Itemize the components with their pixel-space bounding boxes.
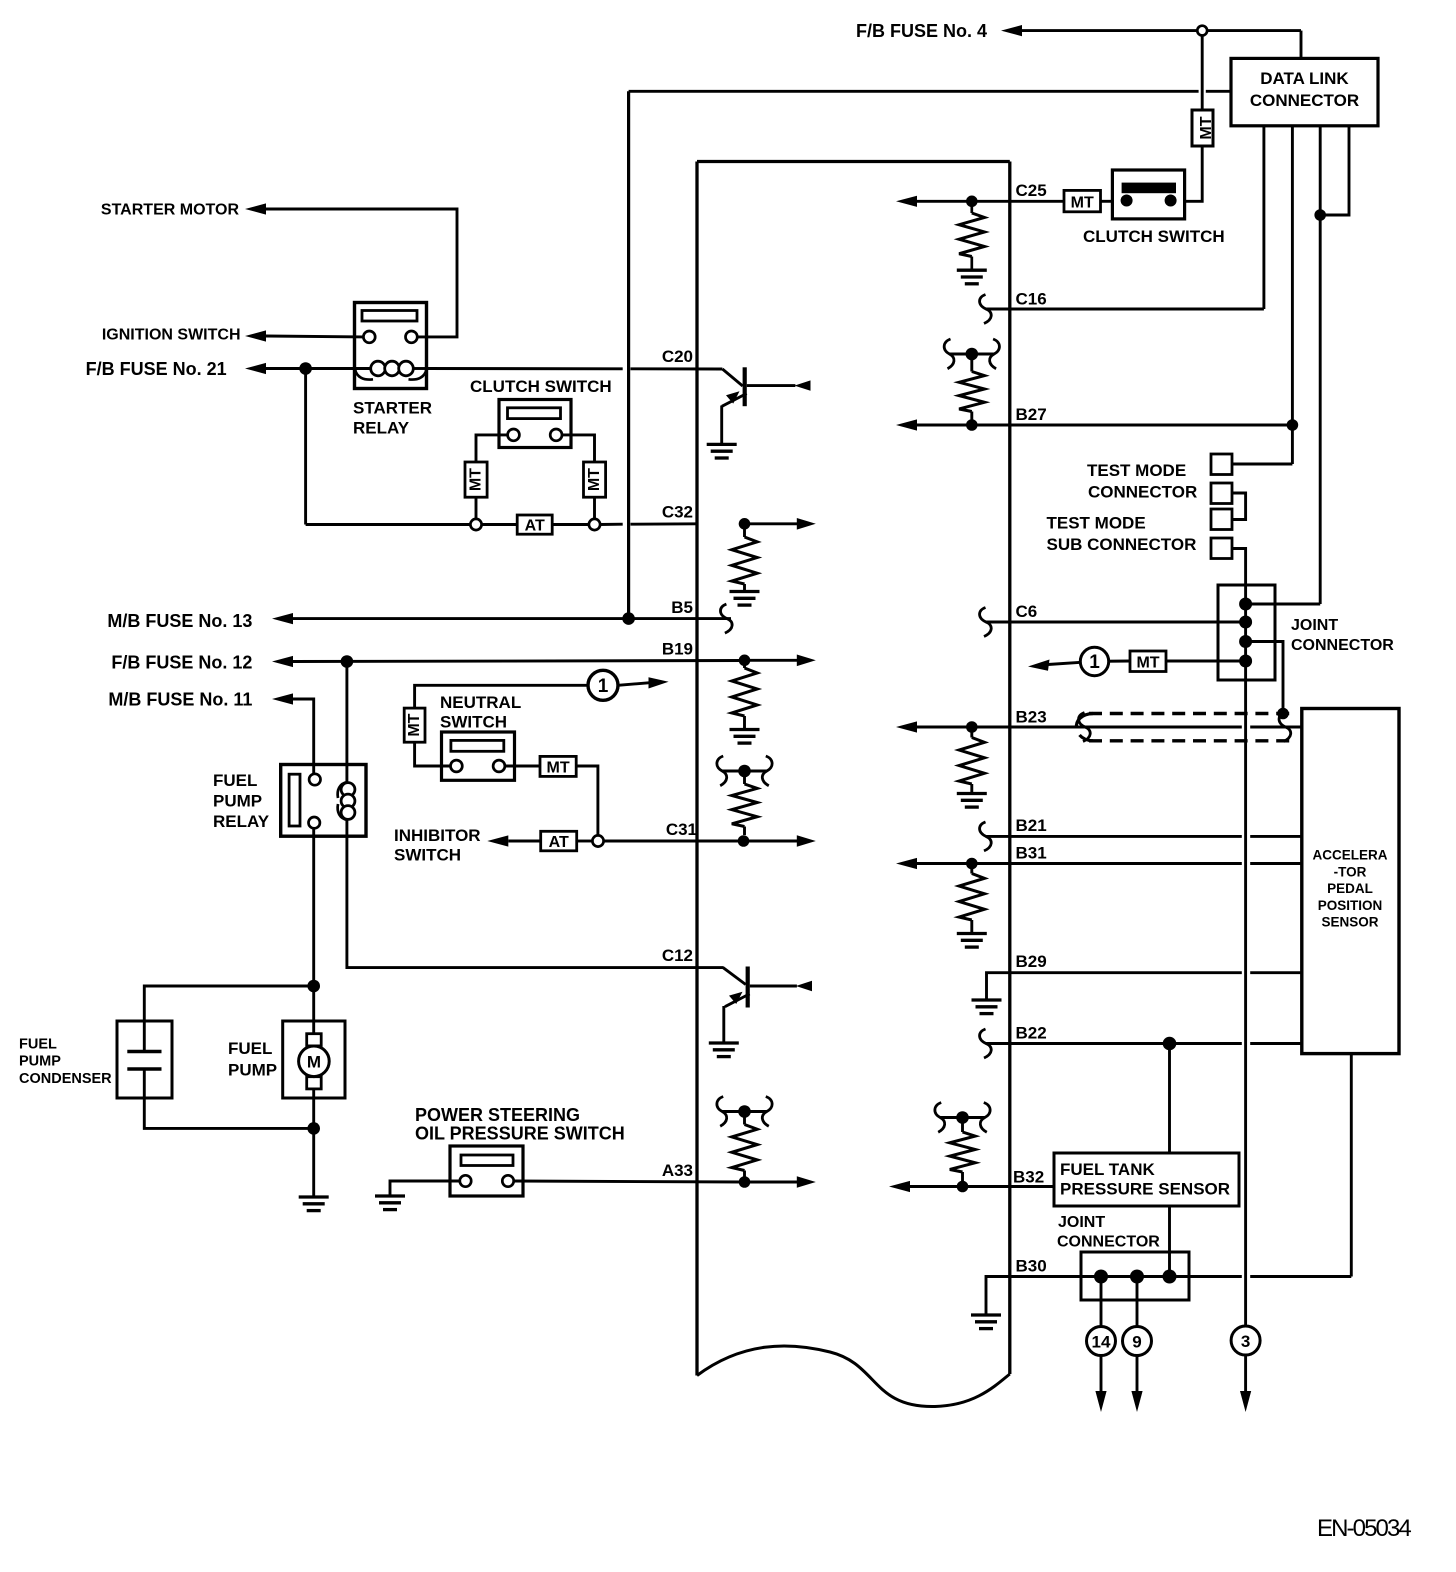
arrow B19 in <box>797 655 816 667</box>
ground fuel pump <box>299 1195 329 1198</box>
wire relay bottom contact down <box>312 828 315 986</box>
svg-text:14: 14 <box>1092 1332 1111 1351</box>
fuel pump relay coil <box>338 782 348 798</box>
svg-text:SWITCH: SWITCH <box>394 846 461 865</box>
connector test-mode square 2 <box>1211 483 1232 504</box>
neutral contact left <box>451 760 463 772</box>
node circled reference 1 (right) <box>1080 647 1108 675</box>
svg-text:INHIBITOR: INHIBITOR <box>394 826 481 845</box>
ground of B23 resistor <box>957 792 987 795</box>
svg-text:EN-05034: EN-05034 <box>1317 1515 1411 1542</box>
wire B22 <box>986 1042 1242 1045</box>
node junction C25/resistor <box>966 196 978 208</box>
relay FUEL PUMP RELAY box <box>281 765 366 837</box>
clutch contact right <box>550 429 562 441</box>
wire fuse12/B19 <box>293 661 745 662</box>
arrow circled3 down <box>1240 1391 1251 1412</box>
svg-text:B23: B23 <box>1016 708 1047 727</box>
svg-text:PRESSURE SENSOR: PRESSURE SENSOR <box>1060 1180 1230 1199</box>
arrow B23 out <box>896 721 917 732</box>
arrow M/B FUSE No. 13 <box>272 613 293 624</box>
switch POWER STEERING OIL PRESSURE SWITCH box <box>450 1146 523 1196</box>
svg-text:A33: A33 <box>662 1161 693 1180</box>
relay STARTER RELAY box <box>355 303 427 389</box>
node AT open contact left <box>470 519 481 530</box>
ground of C25 resistor <box>957 269 987 272</box>
svg-text:CLUTCH SWITCH: CLUTCH SWITCH <box>470 377 612 396</box>
node JC2 pin3 <box>1163 1270 1177 1284</box>
svg-text:STARTER: STARTER <box>353 399 432 418</box>
wire MT down to neutral switch <box>415 742 451 766</box>
fuel pump commutator top <box>307 1034 322 1046</box>
wire condenser bottom <box>144 1069 313 1128</box>
connector MT (vertical) on clutch feed <box>1192 110 1213 146</box>
neutral switch slot <box>451 740 504 751</box>
wire starter motor <box>266 209 457 337</box>
wire accel bottom pin down <box>1350 1054 1353 1277</box>
neutral contact right <box>493 760 505 772</box>
wire JC2 pin2 down <box>1136 1277 1139 1327</box>
ground C12 emitter <box>709 1041 739 1044</box>
connector test-mode square 3 <box>1211 509 1232 530</box>
svg-text:TEST MODE: TEST MODE <box>1087 461 1186 480</box>
node junction A33/resistor <box>739 1176 751 1188</box>
arrow F/B FUSE No. 12 <box>272 656 293 667</box>
switch CLUTCH SWITCH (MT) box <box>1112 170 1184 219</box>
wire B30 <box>986 1277 1242 1315</box>
svg-text:POSITION: POSITION <box>1318 898 1383 913</box>
svg-text:OIL PRESSURE SWITCH: OIL PRESSURE SWITCH <box>415 1124 625 1144</box>
arrow INHIBITOR SWITCH <box>487 835 508 846</box>
transistor C20 emitter <box>722 394 747 407</box>
condenser plate bottom <box>127 1067 161 1070</box>
svg-text:M: M <box>307 1052 321 1071</box>
node joint pin2 <box>1239 616 1252 629</box>
svg-text:POWER STEERING: POWER STEERING <box>415 1105 580 1125</box>
condenser plate top <box>127 1050 161 1053</box>
transistor C12 emitter <box>725 994 750 1007</box>
svg-text:B27: B27 <box>1016 405 1047 424</box>
wire inhibitor to AT <box>508 840 540 843</box>
transistor C12 collector <box>750 985 797 988</box>
flex resistor B27 (hooked) <box>944 339 954 369</box>
break squiggle B5 <box>720 604 732 633</box>
wire circled9 down <box>1136 1356 1139 1393</box>
clutch contact left <box>508 429 520 441</box>
svg-text:B29: B29 <box>1016 952 1047 971</box>
wire C32 stub to arrow <box>745 522 798 525</box>
wire sq4 to joint bus <box>1232 549 1246 586</box>
svg-text:F/B FUSE No. 21: F/B FUSE No. 21 <box>86 359 227 379</box>
connector JOINT CONNECTOR box <box>1218 585 1275 680</box>
wire pump top <box>312 986 315 1034</box>
arrow F/B FUSE No. 21 <box>245 363 266 374</box>
ground B30 <box>971 1313 1001 1316</box>
svg-text:MT: MT <box>1136 655 1159 672</box>
ps contact left <box>460 1175 471 1186</box>
wire circled14 down <box>1100 1356 1103 1393</box>
svg-text:B5: B5 <box>671 598 693 617</box>
arrow M/B FUSE No. 11 <box>272 693 293 704</box>
node junction B22/sensor <box>1163 1037 1177 1051</box>
clutch switch MT bar <box>1122 183 1176 194</box>
svg-text:SUB CONNECTOR: SUB CONNECTOR <box>1047 535 1197 554</box>
svg-text:MT: MT <box>468 468 485 491</box>
wire B21 <box>986 835 1242 838</box>
starter relay slot <box>362 311 417 322</box>
arrow IGNITION SWITCH <box>245 330 266 341</box>
wire DLC pin2 down to B27 and test connector <box>1291 126 1294 464</box>
wire bus from M/B fuse13 riser to DLC <box>629 90 1199 93</box>
svg-text:FUEL TANK: FUEL TANK <box>1060 1160 1155 1179</box>
transistor C12 base lead <box>723 968 746 985</box>
svg-text:B21: B21 <box>1016 816 1047 835</box>
arrow circled9 down <box>1131 1391 1142 1412</box>
wire C32 row <box>304 369 307 525</box>
break squiggle B21 <box>980 822 992 851</box>
wire MT left leg down <box>475 497 478 519</box>
motor FUEL PUMP box <box>283 1021 345 1098</box>
node junction pump/condenser bottom <box>307 1122 320 1135</box>
switch CLUTCH SWITCH box <box>499 400 571 448</box>
wire B23 left of bus <box>917 726 1242 729</box>
node junction fuse13/riser <box>622 612 635 625</box>
resistor C32 pull <box>743 524 746 537</box>
starter relay contact left <box>363 331 375 343</box>
node junction C31/resistor <box>738 835 750 847</box>
wire fuse4 corner down into DATA LINK <box>1300 31 1303 59</box>
wire B22 down to fuel tank sensor <box>1168 1044 1171 1154</box>
clutch switch MT contact left <box>1121 195 1133 207</box>
wire sq2-sq3 bracket <box>1232 493 1246 520</box>
wire MT tag to C31 node <box>576 766 598 836</box>
svg-text:C25: C25 <box>1016 181 1047 200</box>
node JC2 pin2 <box>1130 1270 1144 1284</box>
svg-text:RELAY: RELAY <box>213 812 270 831</box>
svg-text:C16: C16 <box>1016 290 1047 309</box>
svg-text:B22: B22 <box>1016 1024 1047 1043</box>
shield dashed bottom <box>1089 739 1291 742</box>
wire sq1 to DLC pin2 line <box>1232 463 1292 466</box>
node junction B27/DLC pin2 <box>1287 419 1299 431</box>
resistor B19 pull <box>743 660 746 668</box>
svg-text:MT: MT <box>1071 195 1094 212</box>
svg-text:CONNECTOR: CONNECTOR <box>1250 91 1359 110</box>
wire B29 <box>987 973 1242 999</box>
wire MT down to clutch switch <box>1185 146 1203 201</box>
ground B29 <box>972 998 1002 1001</box>
node circled reference 1 (left) <box>588 670 618 700</box>
wire C6 <box>986 621 1246 624</box>
ground of B31 resistor <box>957 932 987 935</box>
connector AT tag <box>517 515 552 534</box>
wire AT to open node <box>577 840 593 843</box>
arrow C25 out <box>896 196 917 207</box>
capacitor FUEL PUMP CONDENSER box <box>117 1021 172 1098</box>
node joint pin4 <box>1239 655 1252 668</box>
svg-text:B31: B31 <box>1016 844 1047 863</box>
wire circled3 down <box>1244 1355 1247 1392</box>
fuel pump motor circle <box>299 1046 330 1077</box>
svg-text:PUMP: PUMP <box>213 792 262 811</box>
svg-text:CONNECTOR: CONNECTOR <box>1291 637 1394 654</box>
node junction B23/resistor <box>966 721 978 733</box>
svg-text:C20: C20 <box>662 347 693 366</box>
clutch switch slot <box>508 408 561 419</box>
svg-text:MT: MT <box>586 468 603 491</box>
svg-text:C32: C32 <box>662 503 693 522</box>
wire C20 feed <box>427 367 623 370</box>
connector JOINT CONNECTOR 2 box <box>1081 1252 1189 1300</box>
wire fuse11 <box>293 699 314 774</box>
arrow circled1 out <box>1048 662 1081 664</box>
wire from junction down to MT <box>1201 36 1204 111</box>
svg-text:C12: C12 <box>662 946 693 965</box>
node junction B19/resistor <box>739 655 751 667</box>
wire neutral right to MT tag <box>505 765 540 768</box>
arrow B31 out <box>896 858 917 869</box>
wire ps left to ground <box>390 1181 460 1195</box>
svg-text:FUEL: FUEL <box>228 1039 272 1058</box>
svg-text:JOINT: JOINT <box>1058 1214 1105 1231</box>
svg-text:NEUTRAL: NEUTRAL <box>440 693 521 712</box>
svg-text:DATA LINK: DATA LINK <box>1260 69 1349 88</box>
svg-text:PEDAL: PEDAL <box>1327 881 1373 896</box>
ground C32 resistor <box>730 590 760 593</box>
wire fuse13 <box>293 617 731 620</box>
ECM top edge <box>697 160 1010 163</box>
wire A33 <box>514 1181 745 1182</box>
svg-text:MT: MT <box>547 759 570 776</box>
wire C12 emitter down <box>722 1006 725 1042</box>
sensor ACCELERATOR PEDAL POSITION SENSOR box <box>1302 709 1399 1054</box>
svg-text:SWITCH: SWITCH <box>440 713 507 732</box>
svg-text:PUMP: PUMP <box>228 1061 277 1080</box>
break squiggle B23 right <box>1279 713 1291 742</box>
ground B19 resistor <box>730 728 760 731</box>
svg-text:1: 1 <box>598 676 609 697</box>
arrow circled14 down <box>1095 1391 1106 1412</box>
svg-text:F/B FUSE No. 4: F/B FUSE No. 4 <box>856 21 987 41</box>
joint bus down to circled 3 <box>1244 680 1247 1327</box>
sensor FUEL TANK PRESSURE SENSOR box <box>1054 1153 1239 1206</box>
svg-text:MT: MT <box>1198 116 1215 139</box>
svg-text:F/B FUSE No. 12: F/B FUSE No. 12 <box>111 653 252 673</box>
svg-text:CONNECTOR: CONNECTOR <box>1088 483 1197 502</box>
connector test-mode square 1 <box>1211 454 1232 475</box>
node junction fuse21/clutch <box>299 362 312 375</box>
svg-text:FUEL: FUEL <box>19 1037 57 1053</box>
wire A33 stub to arrow <box>745 1181 798 1184</box>
wire clutch left leg <box>476 435 508 462</box>
svg-text:RELAY: RELAY <box>353 419 410 438</box>
resistor C25 pull <box>970 201 973 213</box>
wire B23 right of bus <box>1250 726 1302 729</box>
svg-text:B19: B19 <box>662 640 693 659</box>
fuel pump relay contact bottom <box>309 817 320 828</box>
transistor C20 base lead <box>722 369 742 386</box>
wire pump bottom <box>312 1089 315 1196</box>
wire condenser top link <box>144 986 313 1050</box>
svg-text:ACCELERA: ACCELERA <box>1312 848 1387 863</box>
connector MT (vertical left) <box>465 462 487 497</box>
svg-text:M/B FUSE No. 13: M/B FUSE No. 13 <box>107 611 252 631</box>
wire DLC pin1 down to C16 <box>1262 126 1265 309</box>
node joint pin1 <box>1239 598 1252 611</box>
fuel pump commutator bottom <box>307 1077 322 1089</box>
svg-text:TEST MODE: TEST MODE <box>1047 514 1146 533</box>
arrow B27 out <box>896 419 917 430</box>
svg-text:CONNECTOR: CONNECTOR <box>1057 1234 1160 1251</box>
switch NEUTRAL SWITCH box <box>442 732 515 780</box>
wire C20 emitter down <box>720 406 723 444</box>
wire joint pin4 to MT tag <box>1166 660 1246 663</box>
ECM left boundary line <box>695 162 698 1376</box>
svg-text:SENSOR: SENSOR <box>1321 915 1378 930</box>
node circled reference 14 <box>1087 1327 1116 1356</box>
svg-text:C6: C6 <box>1016 602 1038 621</box>
wire DLC pin4 jog <box>1320 126 1349 215</box>
break squiggle B22 <box>980 1029 992 1058</box>
connector MT (vertical right) <box>584 462 606 497</box>
svg-text:FUEL: FUEL <box>213 771 257 790</box>
flex resistor B32 (hooked) <box>935 1103 945 1133</box>
resistor B31 pull <box>970 864 973 874</box>
wire C31 <box>604 840 744 843</box>
wire MT tag to circled 1 <box>1080 660 1130 663</box>
ground power steering <box>375 1194 405 1197</box>
svg-text:AT: AT <box>525 518 545 535</box>
flex resistor A33 (hooked) <box>717 1097 727 1127</box>
connector MT (vertical neutral) <box>404 708 425 742</box>
fuel pump relay contact top <box>309 774 320 785</box>
svg-text:STARTER MOTOR: STARTER MOTOR <box>101 202 240 219</box>
wire C31 stub to arrow <box>744 840 798 843</box>
wire C25 <box>917 200 1064 203</box>
node junction B27/resistor <box>966 419 978 431</box>
wire B32 <box>910 1185 1054 1188</box>
connector AT tag (inhibitor) <box>541 831 577 851</box>
svg-text:3: 3 <box>1241 1332 1250 1351</box>
svg-text:AT: AT <box>549 834 569 851</box>
node junction B31/resistor <box>966 858 978 870</box>
svg-text:MT: MT <box>406 713 423 736</box>
node circled reference 9 <box>1123 1327 1152 1356</box>
wire B30 right segment <box>1250 1275 1351 1278</box>
wire B27 <box>917 424 1292 427</box>
wire MT right leg down <box>593 497 596 519</box>
shield dashed top <box>1089 712 1291 715</box>
svg-text:PUMP: PUMP <box>19 1054 61 1070</box>
node open junction on fuse4 wire <box>1197 26 1207 36</box>
wire ignition switch <box>266 335 363 339</box>
fuel pump relay slot <box>289 774 300 826</box>
node junction fuse12/relay <box>341 655 354 668</box>
arrow circled1 to B19 <box>618 683 650 686</box>
clutch switch MT contact right <box>1165 195 1177 207</box>
node junction condenser/pump top <box>307 980 320 993</box>
node circled reference 3 <box>1231 1326 1260 1355</box>
svg-text:CLUTCH SWITCH: CLUTCH SWITCH <box>1083 227 1225 246</box>
arrow to F/B FUSE No. 4 <box>1001 25 1022 36</box>
power steering slot <box>461 1155 513 1166</box>
wire fuse12 down to coil <box>345 662 348 784</box>
svg-text:B30: B30 <box>1016 1257 1047 1276</box>
wire B31 <box>917 862 1242 865</box>
arrow B32 out <box>889 1181 910 1192</box>
wire joint pin1 to DLC pin3 <box>1246 603 1321 606</box>
resistor B23 pull <box>970 727 973 738</box>
ground C20 emitter <box>707 443 737 446</box>
svg-text:1: 1 <box>1089 652 1100 673</box>
connector DATA LINK CONNECTOR box <box>1231 58 1378 125</box>
arrow STARTER MOTOR <box>245 203 266 214</box>
starter relay coil wire <box>355 367 372 370</box>
svg-text:B32: B32 <box>1013 1168 1044 1187</box>
wire circled1 left leg <box>415 685 588 708</box>
node shield drain junction <box>1277 708 1289 720</box>
wire sensor down to joint connector 2 <box>1168 1206 1171 1277</box>
wire B19 stub to arrow <box>745 659 798 662</box>
connector MT tag (ref 1) <box>1130 651 1166 672</box>
joint bus through box <box>1244 585 1247 680</box>
svg-text:9: 9 <box>1132 1332 1141 1351</box>
wire clutch right leg <box>562 435 595 462</box>
shield dashed left end <box>1076 714 1093 729</box>
ECM right boundary line <box>1008 162 1011 1375</box>
svg-text:JOINT: JOINT <box>1291 617 1338 634</box>
wire JC2 pin1 down <box>1100 1277 1103 1327</box>
wire C25 switch link <box>1101 200 1113 203</box>
starter relay coil <box>355 369 373 380</box>
transistor C20 base bar <box>743 367 747 406</box>
svg-text:IGNITION SWITCH: IGNITION SWITCH <box>102 327 241 344</box>
svg-text:-TOR: -TOR <box>1334 864 1367 879</box>
node joint pin3 <box>1239 635 1252 648</box>
ps contact right <box>502 1175 513 1186</box>
node C31 open contact <box>592 835 603 846</box>
svg-text:M/B FUSE No. 11: M/B FUSE No. 11 <box>108 689 252 709</box>
wire joint pin3 to shield drain <box>1246 642 1283 709</box>
ECM bottom wavy break <box>697 1346 1010 1407</box>
transistor C20 collector <box>747 384 796 387</box>
svg-text:C31: C31 <box>666 820 697 839</box>
node AT open contact right <box>589 519 600 530</box>
flex resistor C31 (hooked) <box>717 756 727 786</box>
arrow C31 in <box>797 835 816 847</box>
connector MT tag on C25 wire <box>1064 190 1101 211</box>
break squiggle C16 <box>980 295 992 324</box>
break squiggle B23 left <box>1079 713 1091 742</box>
wire coil down to C12 <box>347 819 724 968</box>
connector MT tag (neutral) <box>540 756 576 776</box>
transistor C12 base bar <box>746 967 750 1008</box>
svg-text:CONDENSER: CONDENSER <box>19 1071 112 1087</box>
wire C16 <box>986 308 1264 311</box>
wire DLC pin3 down to joint connector <box>1319 126 1322 604</box>
arrow A33 in <box>797 1176 816 1188</box>
node JC2 pin1 <box>1094 1270 1108 1284</box>
starter relay contact right <box>406 331 418 343</box>
wire riser to DLC bus <box>627 91 630 618</box>
break squiggle C6 <box>980 608 992 637</box>
arrow C32 in <box>797 518 816 530</box>
wire fuse21 <box>266 367 355 370</box>
node junction DLC pin3/pin4 <box>1314 209 1326 221</box>
node junction B32/resistor <box>957 1181 969 1193</box>
node junction C32/resistor <box>739 518 751 530</box>
wire fuse4 horizontal <box>1022 29 1301 32</box>
